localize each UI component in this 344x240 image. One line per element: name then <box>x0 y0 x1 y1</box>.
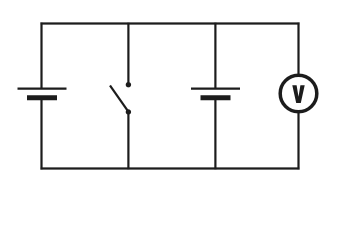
wire battery2 upper <box>214 22 216 88</box>
battery B2 positive plate <box>191 87 240 89</box>
voltmeter V1 body <box>280 75 317 112</box>
switch S1 bottom contact <box>126 109 131 114</box>
voltmeter V1 label <box>292 85 304 103</box>
wire voltmeter upper <box>297 22 299 75</box>
battery B1 negative plate <box>27 95 57 100</box>
wire bottom <box>40 167 299 169</box>
switch S1 top contact <box>126 82 131 87</box>
battery B1 positive plate <box>18 87 67 89</box>
wire top <box>40 22 299 24</box>
wire left upper <box>40 22 42 88</box>
wire voltmeter lower <box>297 112 299 170</box>
battery B2 negative plate <box>201 95 231 100</box>
wire switch upper <box>127 22 129 83</box>
wire switch lower <box>127 113 129 170</box>
wire left lower <box>40 98 42 170</box>
switch S1 blade <box>110 86 128 112</box>
wire battery2 lower <box>214 98 216 170</box>
